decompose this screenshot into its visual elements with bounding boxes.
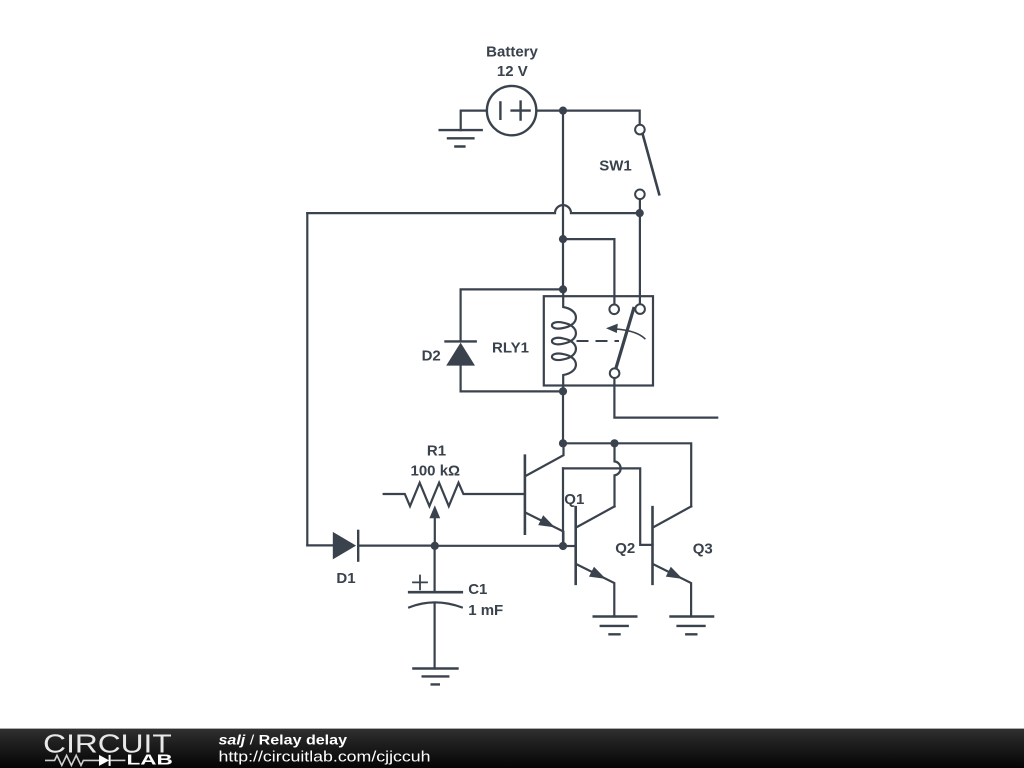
relay RLY1 box bbox=[544, 296, 653, 385]
junction coil bottom / D2 anode bbox=[559, 387, 567, 395]
svg-text:C1: C1 bbox=[468, 581, 487, 598]
svg-text:RLY1: RLY1 bbox=[492, 340, 529, 357]
junction node B (SW1 output) bbox=[636, 209, 644, 217]
wire collector rail bbox=[563, 443, 691, 506]
relay RLY1 common contact pin bbox=[610, 368, 620, 378]
diode D1 bbox=[333, 531, 358, 561]
diode D2 bbox=[446, 341, 476, 365]
relay RLY1 NO contact pin bbox=[635, 304, 645, 314]
wire left rail to D1 bbox=[307, 544, 333, 546]
junction coil top / D2 cathode bbox=[559, 285, 567, 293]
svg-text:Battery: Battery bbox=[486, 44, 538, 61]
wire D2 bottom branch bbox=[461, 366, 563, 392]
svg-text:100 kΩ: 100 kΩ bbox=[411, 463, 461, 480]
wire D2 top branch bbox=[461, 289, 563, 341]
junction Q1 emitter / Q2 base bbox=[559, 542, 567, 550]
wire left vertical rail bbox=[306, 213, 308, 545]
wire node B down to relay NO contact bbox=[639, 213, 641, 304]
relay RLY1 actuation arrow bbox=[606, 324, 645, 339]
wire node A down through hop to coil node bbox=[562, 111, 564, 290]
switch SW1 bbox=[635, 125, 659, 199]
svg-text:LAB: LAB bbox=[127, 752, 174, 768]
svg-text:salj / Relay delay: salj / Relay delay bbox=[219, 733, 348, 748]
junction node A (battery positive rail) bbox=[559, 107, 567, 115]
wire long horizontal with hop over vertical bbox=[307, 205, 639, 213]
relay RLY1 coil bbox=[552, 289, 576, 391]
wire coil node down to collector rail bbox=[562, 391, 564, 443]
battery V1 ground symbol bbox=[440, 111, 486, 147]
svg-text:D1: D1 bbox=[336, 570, 355, 587]
relay RLY1 NC contact pin bbox=[609, 305, 619, 315]
svg-text:R1: R1 bbox=[427, 443, 446, 460]
junction node rail-to-NC branch bbox=[559, 235, 567, 243]
ground under Q2 bbox=[594, 617, 637, 635]
wire relay common out bbox=[614, 378, 717, 417]
svg-text:http://circuitlab.com/cjjccuh: http://circuitlab.com/cjjccuh bbox=[219, 750, 431, 766]
resistor R1 bbox=[384, 483, 525, 507]
wire Q2 collector feed with hop bbox=[615, 443, 621, 506]
svg-text:1 mF: 1 mF bbox=[468, 602, 503, 619]
ground under Q3 bbox=[671, 617, 714, 635]
relay RLY1 dashed link bbox=[578, 340, 619, 342]
junction collector rail left bbox=[559, 439, 567, 447]
svg-text:Q2: Q2 bbox=[615, 540, 635, 557]
svg-text:SW1: SW1 bbox=[599, 157, 632, 174]
capacitor C1 bbox=[409, 546, 462, 669]
CircuitLab logo resistor-diode glyph bbox=[45, 755, 125, 766]
transistor Q3 bbox=[653, 506, 692, 616]
transistor Q2 bbox=[563, 506, 615, 616]
svg-text:Q1: Q1 bbox=[564, 491, 584, 508]
wire node C to emitter node bbox=[435, 545, 563, 547]
wire emitter node bypass to Q3 base bbox=[563, 468, 653, 545]
wire D1 to node C bbox=[358, 544, 435, 546]
battery V1 (12 V source) bbox=[487, 86, 536, 135]
footer bar bbox=[0, 729, 1024, 768]
transistor Q1 bbox=[525, 443, 564, 546]
wire node 239 to relay NC contact bbox=[563, 239, 614, 304]
R1 wiper arrow bbox=[429, 505, 440, 546]
svg-text:D2: D2 bbox=[422, 347, 441, 364]
junction node C (D1 / C1 / R1 wiper) bbox=[431, 542, 439, 550]
ground under C1 bbox=[413, 669, 457, 685]
wire SW1 bottom to node B bbox=[639, 199, 641, 213]
relay RLY1 blade bbox=[616, 309, 634, 369]
wire battery to node A bbox=[537, 109, 563, 111]
junction collector rail Q2 tap bbox=[610, 439, 618, 447]
svg-text:12 V: 12 V bbox=[497, 63, 528, 80]
svg-text:Q3: Q3 bbox=[693, 541, 713, 558]
wire node A to SW1 top bbox=[563, 111, 640, 125]
